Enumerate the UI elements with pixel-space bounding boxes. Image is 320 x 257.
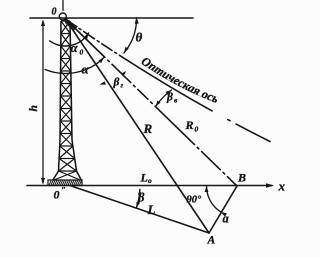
svg-text:0: 0 <box>54 188 60 202</box>
svg-text:в: в <box>174 97 177 105</box>
svg-text:0: 0 <box>52 7 57 18</box>
svg-text:R: R <box>185 118 194 132</box>
svg-text:a: a <box>223 212 229 226</box>
svg-text:β: β <box>166 92 173 104</box>
svg-text:h: h <box>28 105 40 111</box>
svg-text:L: L <box>147 202 156 217</box>
svg-text:L: L <box>140 170 148 184</box>
svg-text:90°: 90° <box>187 195 203 206</box>
svg-text:R: R <box>143 121 153 136</box>
svg-text:o: o <box>148 176 152 185</box>
svg-text:α: α <box>71 40 79 55</box>
svg-text:A: A <box>207 235 216 247</box>
svg-text:α: α <box>82 62 90 77</box>
svg-text:x: x <box>278 179 286 194</box>
svg-text:″: ″ <box>62 186 66 195</box>
svg-text:β: β <box>137 191 145 205</box>
svg-text:0: 0 <box>195 125 199 134</box>
svg-text:0: 0 <box>80 48 84 57</box>
svg-text:B: B <box>237 171 246 185</box>
svg-text:θ: θ <box>136 30 143 45</box>
svg-text:β: β <box>113 77 120 89</box>
svg-text:г: г <box>121 82 124 90</box>
